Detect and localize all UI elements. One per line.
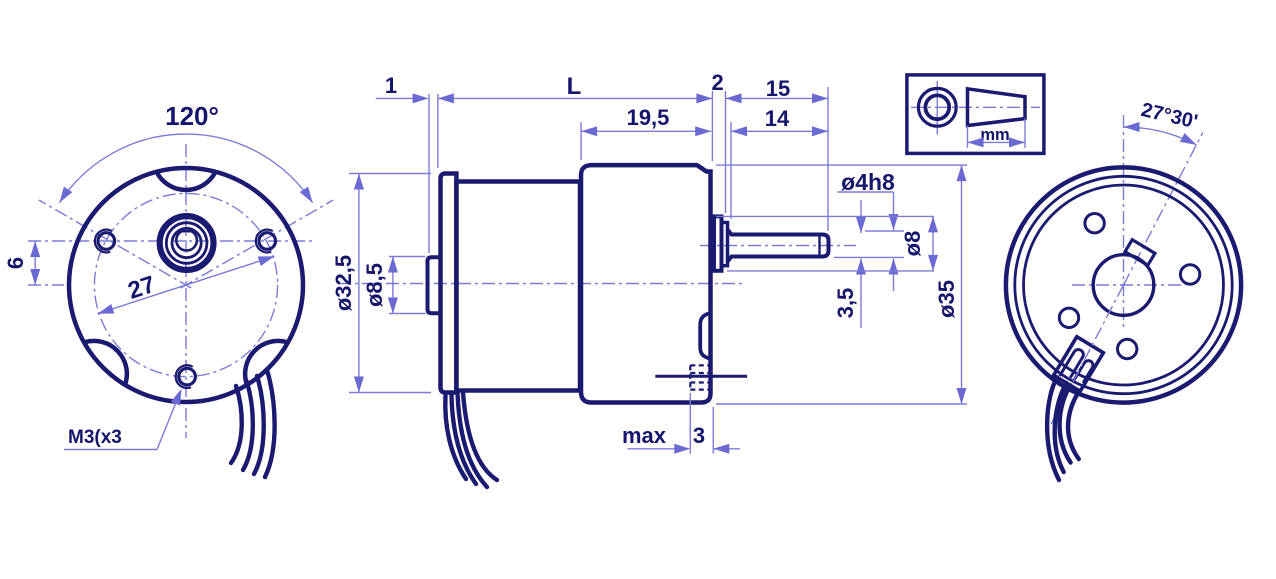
mounting hole bottom	[179, 368, 196, 385]
svg-text:120°: 120°	[165, 101, 219, 131]
shaft bore with flat	[176, 231, 197, 250]
housing side slot	[700, 314, 709, 359]
27deg30 rotated centerline lower	[1046, 285, 1124, 434]
ext line 14-left	[730, 122, 732, 219]
svg-text:19,5: 19,5	[627, 105, 670, 130]
shaft	[728, 230, 829, 262]
svg-text:2: 2	[711, 70, 723, 95]
ext line 19.5-left	[580, 122, 582, 160]
lower-left rim scallop	[84, 341, 127, 385]
shaft extension lines	[865, 230, 904, 232]
M3 leader	[64, 449, 157, 451]
rear hole 2	[1180, 265, 1199, 284]
svg-text:max: max	[622, 423, 667, 448]
projection symbol frame	[907, 75, 1044, 153]
rear hub circle	[1093, 255, 1154, 316]
ext line L-right / 2-left	[711, 91, 713, 161]
120 deg dimension arc	[59, 134, 312, 203]
o8,5 extension lines	[389, 256, 426, 258]
bearing boss ring 3	[172, 228, 201, 257]
max3 extension lines	[689, 393, 691, 454]
o8 extension lines	[716, 215, 934, 217]
mounting hole right	[259, 233, 276, 250]
svg-text:L: L	[567, 73, 582, 100]
shaft centerline	[700, 245, 856, 247]
27 bolt-circle dimension line	[98, 256, 275, 313]
lower-right rim scallop	[245, 341, 288, 385]
bolt circle (dash-dot)	[94, 193, 277, 376]
right view vertical centerline	[1123, 115, 1125, 327]
wire connector	[1054, 337, 1104, 392]
rear rim circle 3	[1024, 185, 1224, 385]
svg-text:3,5: 3,5	[833, 288, 858, 319]
svg-text:6: 6	[3, 257, 28, 269]
mounting hole left	[98, 233, 115, 250]
symbol cone	[968, 89, 1026, 126]
dim o32,5	[358, 174, 360, 393]
o4h8 underline+leader	[838, 191, 894, 193]
left view vertical centerline	[185, 144, 187, 438]
rear hole 1	[1085, 214, 1104, 233]
6 dim extension line	[28, 284, 64, 286]
dim max 3	[628, 448, 676, 450]
dim o8,5	[392, 257, 394, 314]
right view wires	[1047, 377, 1059, 480]
left view upper-left radial ray	[39, 200, 191, 288]
rear rim circle 2	[1015, 176, 1232, 393]
dim o8	[932, 216, 934, 271]
svg-text:ø8: ø8	[900, 231, 925, 257]
svg-text:ø8,5: ø8,5	[362, 263, 387, 307]
svg-text:M3(x3: M3(x3	[68, 427, 122, 448]
ext line 2-right / 15-left	[725, 91, 727, 213]
dim 3,5 stems	[860, 200, 862, 233]
dim 1	[376, 97, 413, 99]
top rim scallop	[157, 172, 216, 190]
shaft collar flange	[714, 216, 722, 270]
front housing	[581, 165, 711, 402]
bearing boss outer ring	[160, 216, 214, 270]
shaft collar step	[722, 223, 728, 266]
svg-text:ø35: ø35	[934, 280, 959, 318]
left view horizontal centerline through holes	[28, 240, 315, 242]
27deg30 rotated centerline upper	[1124, 132, 1203, 285]
motor can	[456, 182, 580, 391]
rear hole 3	[1059, 308, 1078, 327]
mm dimension	[967, 126, 969, 149]
right view horizontal centerline	[1072, 284, 1182, 286]
dim 19,5	[581, 130, 711, 132]
svg-text:1: 1	[385, 73, 397, 98]
rear hole 4	[1118, 339, 1137, 358]
dim L	[438, 97, 713, 99]
left view upper-right radial ray	[181, 200, 333, 288]
ext line 1-left	[428, 94, 430, 253]
hub keyway tab	[1125, 240, 1155, 266]
rear end cap	[441, 174, 457, 393]
svg-text:ø4h8: ø4h8	[841, 169, 895, 195]
motor centerline	[338, 283, 742, 285]
svg-text:14: 14	[765, 106, 790, 131]
symbol circles	[918, 88, 956, 126]
dim 15	[726, 97, 829, 99]
svg-text:mm: mm	[980, 126, 1009, 144]
motor face outer circle	[69, 168, 303, 402]
o32,5 extension lines	[349, 173, 431, 175]
27deg30 dimension arc	[1124, 127, 1197, 145]
svg-text:ø32,5: ø32,5	[331, 255, 356, 311]
section line	[655, 375, 747, 378]
svg-text:15: 15	[766, 76, 790, 101]
symbol crosshair	[936, 81, 938, 135]
middle view wires	[445, 395, 466, 479]
rear outer circle	[1006, 167, 1241, 402]
rear bushing	[428, 257, 442, 313]
ext line 1-right / L-left	[437, 94, 439, 168]
bearing boss ring 2	[166, 223, 207, 264]
dim o35	[961, 165, 963, 404]
ext line shaft tip	[827, 87, 829, 231]
dim 14	[731, 130, 828, 132]
hidden hole (dashed)	[690, 364, 709, 366]
left view wires	[231, 386, 242, 463]
6 dimension	[34, 241, 36, 285]
svg-text:3: 3	[693, 423, 705, 448]
o35 extension lines	[716, 164, 967, 166]
